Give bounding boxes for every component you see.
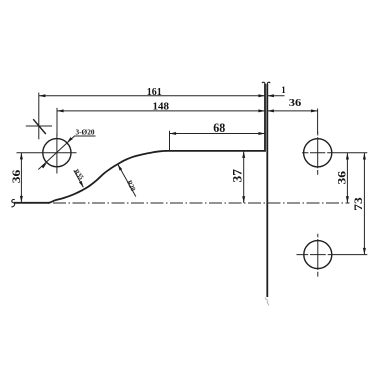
svg-text:36: 36: [334, 171, 348, 185]
svg-text:161: 161: [147, 86, 162, 98]
svg-text:148: 148: [153, 100, 170, 112]
svg-text:73: 73: [351, 197, 365, 211]
svg-text:37: 37: [230, 169, 244, 183]
svg-text:36: 36: [289, 97, 302, 109]
svg-text:3-Ø20: 3-Ø20: [76, 127, 95, 136]
svg-text:36: 36: [9, 170, 23, 184]
svg-text:1: 1: [281, 85, 286, 95]
svg-text:68: 68: [213, 121, 225, 135]
